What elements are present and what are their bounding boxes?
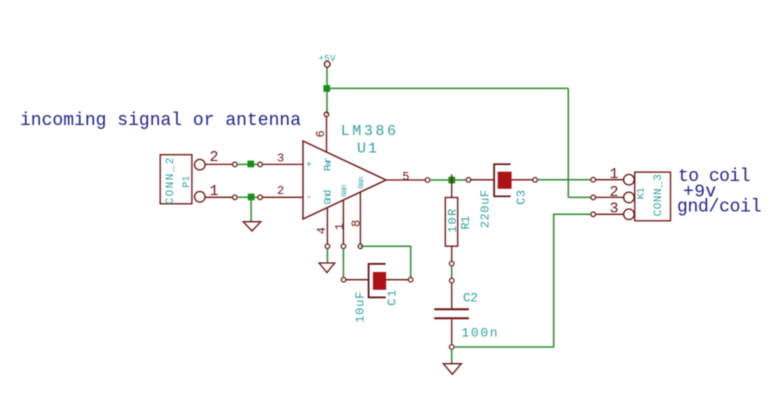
U1 pin 2 lead: [262, 196, 303, 198]
capacitor C3 left pin end: [466, 178, 471, 183]
svg-text:1: 1: [209, 183, 218, 200]
wire U1 pin 8 to C1 right: [360, 246, 410, 277]
wire U1 pin 1 down to C1: [342, 249, 344, 278]
svg-text:Gnd: Gnd: [322, 190, 334, 205]
K1 pin 1 lead: [596, 179, 624, 181]
capacitor C2 bottom lead: [451, 319, 453, 344]
svg-text:2: 2: [277, 184, 284, 198]
wire C2 bottom to ground: [451, 349, 453, 364]
svg-text:3: 3: [609, 201, 618, 218]
capacitor C1 right pin end: [408, 277, 413, 282]
wire R1 bottom to C2 top: [451, 266, 453, 278]
capacitor C3 right lead: [512, 179, 533, 181]
svg-text:1: 1: [609, 166, 618, 183]
wire +V rail into K1 pin 2: [568, 196, 591, 198]
resistor R1 bottom lead: [451, 246, 453, 261]
power +5V symbol circle: [324, 61, 330, 67]
svg-text:8: 8: [350, 220, 364, 227]
svg-text:LM386: LM386: [341, 123, 396, 140]
connector P1 body: [160, 155, 192, 204]
K1 pin 3 end: [591, 212, 596, 217]
svg-text:10uF: 10uF: [354, 292, 368, 323]
junction output node: [448, 177, 455, 184]
svg-text:+: +: [306, 160, 312, 172]
svg-text:3: 3: [277, 151, 284, 165]
K1 pin 1 end: [591, 177, 596, 182]
capacitor C1 negative bracket: [369, 264, 386, 298]
op-amp U1 triangle: [303, 141, 386, 219]
capacitor C3 right pin end: [533, 178, 538, 183]
svg-text:2: 2: [209, 149, 218, 166]
P1 pin 1 end: [233, 195, 238, 200]
ground U1 pin 4: [319, 263, 335, 273]
svg-text:2: 2: [609, 184, 618, 201]
capacitor C2 top pin end: [449, 278, 454, 283]
wire +V rail horizontal: [327, 87, 569, 89]
svg-text:+5V: +5V: [319, 54, 337, 64]
capacitor C2 top lead: [451, 283, 453, 308]
K1 pad circle pin 1: [624, 174, 635, 185]
svg-text:5: 5: [402, 170, 409, 184]
wire +V rail vertical drop to K1: [567, 88, 569, 197]
capacitor C3 negative bracket: [494, 164, 511, 196]
P1 pad circle pin 2: [195, 159, 206, 170]
K1 pad circle pin 3: [624, 209, 635, 220]
junction node IN-: [248, 194, 255, 201]
capacitor C1 positive plate: [373, 272, 386, 290]
capacitor C1 right lead: [386, 279, 408, 281]
svg-text:6: 6: [314, 130, 328, 137]
U1 pin 2 end: [258, 195, 263, 200]
wire IN- junction to ground: [250, 197, 252, 221]
U1 pin 3 end: [258, 162, 263, 167]
capacitor C2 bottom pin end: [449, 345, 454, 350]
U1 pin 5 end: [425, 178, 430, 183]
svg-text:C3: C3: [515, 190, 529, 205]
wire C2 node to K1 pin 3: [454, 214, 591, 347]
U1 pin 1 lead: [342, 200, 344, 244]
U1 pin 8 lead: [359, 192, 361, 244]
capacitor C2 bottom plate: [434, 317, 469, 319]
U1 pin 8 end: [358, 244, 363, 249]
wire +5V to U1 pin 6: [326, 68, 328, 115]
ground C2: [443, 364, 461, 375]
svg-text:gnd/coil: gnd/coil: [677, 198, 762, 218]
U1 pin 5 lead: [386, 179, 425, 181]
svg-text:Gain: Gain: [341, 185, 349, 197]
resistor R1 top lead: [451, 175, 453, 198]
svg-text:Pwr: Pwr: [323, 157, 334, 171]
wire P1 pin 1 to U1 pin 2: [237, 196, 258, 198]
svg-text:C2: C2: [463, 291, 478, 306]
resistor R1 bottom pin end: [449, 261, 454, 266]
ground input: [243, 222, 261, 231]
capacitor C2 top plate: [434, 308, 469, 310]
U1 pin 4 end: [325, 244, 330, 249]
P1 pin 1 lead: [205, 196, 233, 198]
wire P1 pin 2 to U1 pin 3: [237, 163, 258, 165]
svg-text:CONN_3: CONN_3: [653, 174, 665, 216]
resistor R1 body: [445, 198, 457, 247]
wire U1 pin 4 to ground: [326, 249, 328, 264]
U1 pin 4 lead: [326, 208, 328, 245]
capacitor C3 left lead: [471, 179, 494, 181]
svg-text:incoming signal or antenna: incoming signal or antenna: [20, 111, 301, 131]
svg-text:4: 4: [315, 227, 329, 234]
svg-text:Gain: Gain: [358, 177, 366, 189]
K1 pad circle pin 2: [624, 192, 635, 203]
svg-text:10R: 10R: [446, 209, 460, 233]
svg-text:-: -: [306, 192, 312, 204]
P1 pin 2 lead: [205, 163, 233, 165]
K1 pin 2 end: [591, 195, 596, 200]
junction +V rail: [323, 85, 330, 92]
U1 pin 1 end: [341, 244, 346, 249]
svg-text:R1: R1: [459, 216, 473, 230]
svg-text:C1: C1: [386, 290, 400, 306]
K1 pin 2 lead: [596, 196, 624, 198]
K1 pin 3 lead: [596, 213, 624, 215]
U1 pin 6 end: [324, 112, 329, 117]
capacitor C1 left pin end: [341, 277, 346, 282]
svg-text:U1: U1: [357, 141, 377, 158]
wire C3 to K1 pin 1: [537, 179, 591, 181]
wire U1 pin 5 to output node: [430, 179, 466, 181]
P1 pad circle pin 1: [195, 192, 206, 203]
connector K1 body: [635, 172, 671, 221]
svg-text:P1: P1: [182, 176, 193, 188]
U1 pin 3 lead: [262, 163, 303, 165]
svg-text:220uF: 220uF: [478, 190, 492, 228]
capacitor C1 left lead: [346, 279, 369, 281]
svg-text:1: 1: [333, 223, 347, 230]
capacitor C3 positive plate: [498, 172, 512, 189]
P1 pin 2 end: [233, 162, 238, 167]
U1 pin 6 lead: [326, 117, 328, 153]
svg-text:100n: 100n: [461, 326, 497, 341]
junction node IN+: [247, 161, 254, 168]
svg-text:K1: K1: [637, 187, 648, 199]
